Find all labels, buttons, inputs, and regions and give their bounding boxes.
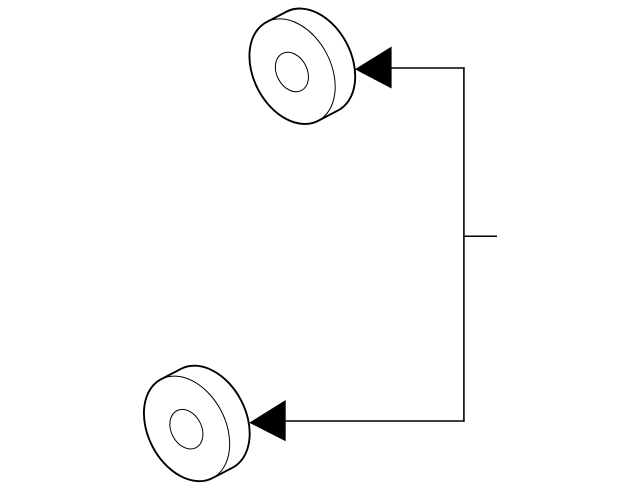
grommet 1 center hole (269, 47, 315, 98)
grommet 1 front face edge (232, 4, 352, 139)
grommet 2 outer silhouette (144, 366, 250, 481)
leader line bottom horizontal (285, 420, 464, 422)
callout tick (464, 235, 497, 237)
grommet 2 (bottom) (127, 361, 250, 492)
arrowhead 1 (top) (355, 47, 392, 89)
arrowhead 2 (bottom) (249, 400, 286, 441)
grommet 1 (top) (232, 4, 355, 139)
grommet 2 center hole (163, 404, 209, 455)
grommet 1 outer silhouette (249, 9, 355, 124)
leader line vertical (463, 67, 465, 422)
leader line top horizontal (391, 67, 465, 69)
grommet 2 front face edge (127, 361, 247, 492)
